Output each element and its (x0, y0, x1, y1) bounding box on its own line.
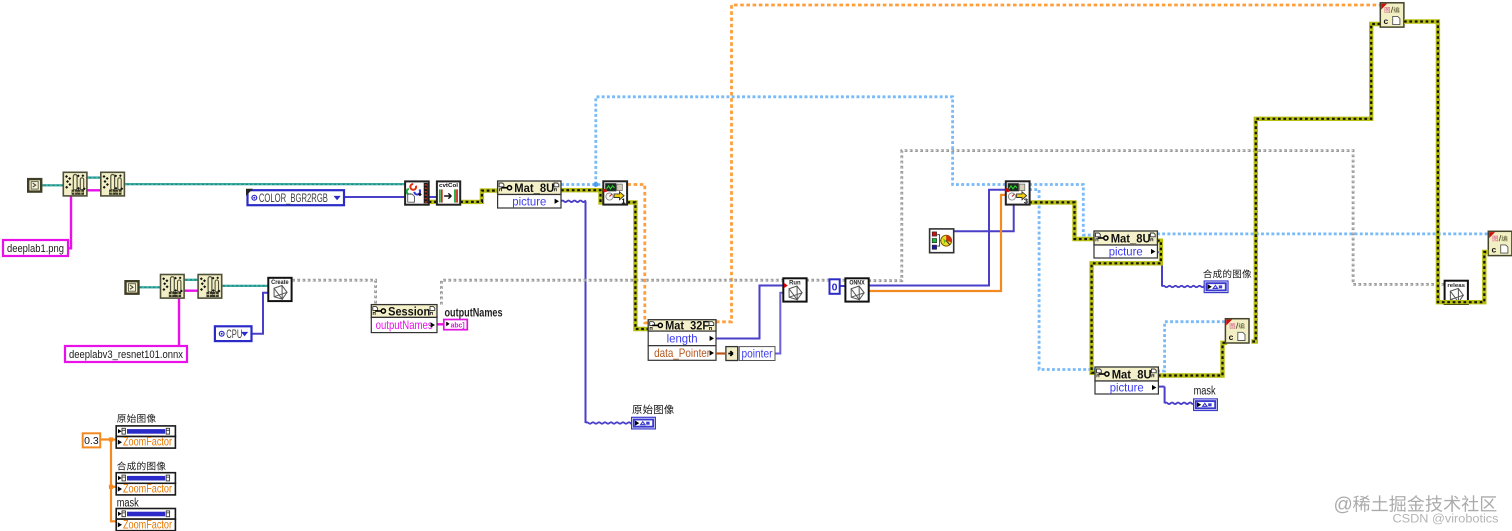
image encode node top right (1380, 3, 1404, 27)
enum CPU (215, 326, 252, 341)
ONNX invoke node (845, 278, 868, 301)
constant 0.3 (83, 433, 101, 447)
wire: CPU enum to Create (252, 293, 269, 334)
wire: mask mat to encode middle (1158, 343, 1227, 376)
wire: deeplab1.png string up to VI (68, 196, 72, 248)
svg-text:picture: picture (512, 194, 546, 208)
svg-text:outputNames: outputNames (376, 318, 433, 332)
wire: length to Run node (716, 286, 783, 339)
string constant deeplabv3_resnet101.onnx (65, 346, 187, 362)
wire: display 1 mat to Mat_32F (627, 202, 648, 329)
svg-text:ZoomFactor: ZoomFactor (123, 517, 172, 531)
wire: imread to cvtColor (429, 196, 437, 198)
pointer terminal (726, 347, 738, 361)
wire: Mat_8U ref to display 1 (561, 183, 603, 186)
wire: string between top VI icons (87, 189, 101, 191)
wire: data_Pointer to pointer (716, 352, 726, 354)
wire: ref branch across top to display 3 (596, 97, 1006, 185)
VI icon: build path (model) (198, 275, 222, 299)
svg-text:cvtCol: cvtCol (439, 183, 458, 189)
svg-text:3: 3 (1024, 197, 1028, 206)
svg-text:mask: mask (1194, 386, 1216, 398)
junction: ref wire branch (593, 182, 598, 187)
wire: cvtColor mat to Mat_8U (460, 191, 497, 202)
svg-text:CPU: CPU (226, 329, 242, 341)
wire: composite mat to Mat_8U mask (1092, 241, 1161, 373)
constant 0 (830, 279, 840, 294)
Mat_8U node C (mask) (1095, 367, 1158, 381)
Mat_8U node A (498, 181, 561, 195)
wire: picture to original image indicator (561, 201, 586, 202)
svg-text:c: c (1229, 332, 1234, 342)
enum COLOR_BGR2RGB (248, 190, 345, 205)
coercion dot display 1 (603, 189, 606, 192)
wire: path out to imread node (125, 183, 405, 185)
wire: onnx filename string up to VI (178, 292, 180, 347)
Mat_32F node (648, 320, 716, 331)
wire: Mat_8U to display 1 (561, 190, 603, 202)
wire: 0.3 to ZoomFactor 1 (100, 438, 116, 440)
Mat_8U node B (composite) (1094, 231, 1157, 245)
label composite image (1203, 269, 1212, 278)
wire: encode top right around to encode bottom right (1404, 22, 1488, 303)
image encode node middle (1225, 319, 1249, 343)
svg-text:ZoomFactor: ZoomFactor (123, 435, 172, 449)
Session node (371, 305, 437, 318)
imread node (405, 181, 429, 204)
wire: ONNX output to display 3 (868, 190, 1006, 286)
VI icon: build path (image) (101, 172, 125, 196)
wire: ONNX output 2 to display 3 (868, 195, 1006, 291)
ONNX Run node (783, 278, 806, 301)
svg-text:picture: picture (1109, 245, 1143, 259)
image display 3 (1006, 181, 1030, 204)
wire: pointer to Run node (775, 293, 783, 354)
wire: COLOR_BGR2RGB enum to imread (344, 196, 405, 198)
svg-text:COLOR_BGR2RGB: COLOR_BGR2RGB (259, 193, 328, 205)
wire: picture to mask indicator (1159, 386, 1165, 388)
wire: Run to ONNX node (806, 279, 845, 282)
image encode node bottom right (1488, 231, 1512, 255)
wire: picture to composite image indicator (1157, 251, 1162, 253)
wire: display 1 cluster to Mat_32F (627, 185, 648, 323)
svg-text:data_Pointer: data_Pointer (654, 346, 710, 360)
svg-text:ZoomFactor: ZoomFactor (123, 482, 172, 496)
svg-text:Mat_8U: Mat_8U (1112, 367, 1152, 381)
svg-text:Mat_8U: Mat_8U (514, 181, 554, 195)
svg-text:0: 0 (832, 282, 838, 294)
coercion dot Run input (784, 283, 788, 288)
wire: ref to Mat_8U mask (1029, 190, 1095, 370)
svg-text:Run: Run (789, 280, 801, 287)
svg-text:ONNX: ONNX (849, 280, 865, 287)
wire: session chain to release node (868, 151, 1444, 285)
VI icon: get exe path (63, 172, 87, 196)
indicator outputNames abc (444, 320, 468, 330)
ONNX release node (1445, 281, 1468, 304)
svg-text:releas: releas (1447, 283, 1465, 289)
string constant deeplab1.png (3, 240, 68, 256)
wire: Create session to Session node (292, 280, 376, 304)
coercion dot display 3 input (1005, 188, 1008, 191)
VI icon: get exe path 2 (161, 275, 185, 299)
svg-text:c: c (1492, 245, 1497, 255)
wire: ref to encode node middle (1157, 322, 1225, 371)
svg-text:c: c (1384, 16, 1389, 26)
svg-text:deeplabv3_resnet101.onnx: deeplabv3_resnet101.onnx (69, 349, 183, 361)
svg-text:1: 1 (621, 197, 625, 206)
junction: zoom factor branch 2 (109, 485, 113, 489)
ZoomFactor control 1 (116, 426, 175, 437)
wire: string between bottom VI icons (183, 290, 198, 292)
wire: path constant 2 to VI (138, 286, 161, 288)
wire: 0.3 branch to ZoomFactor 2 (111, 486, 116, 488)
label ZoomFactor original (117, 414, 126, 422)
svg-text:length: length (667, 332, 698, 346)
cvtColor node (437, 181, 460, 204)
svg-text:abc]: abc] (451, 322, 465, 329)
svg-text:0.3: 0.3 (84, 435, 99, 447)
svg-text:deeplab1.png: deeplab1.png (7, 243, 64, 255)
wire: mat imread to cvtColor (429, 200, 437, 204)
ZoomFactor control 3 (116, 509, 175, 520)
wire: ref to encode node bottom right (1157, 232, 1489, 235)
svg-text:@: @ (1334, 495, 1353, 516)
svg-text:mask: mask (117, 497, 139, 509)
path constant (image) (28, 179, 41, 192)
label original image (632, 405, 641, 414)
wire: colorbox to display 3 (954, 205, 1014, 232)
wire: outputNames to abc indicator (437, 323, 445, 325)
svg-text:CSDN @virobotics: CSDN @virobotics (1393, 514, 1499, 526)
wire: teal between bottom VI icons (183, 279, 198, 281)
label ZoomFactor composite (117, 461, 126, 470)
ONNX Create node (268, 278, 291, 301)
path constant (model) (126, 281, 139, 294)
wire: 0.3 branch down to ZoomFactor 3 (111, 440, 116, 522)
svg-text:Session: Session (388, 304, 430, 318)
svg-text:Mat_8U: Mat_8U (1111, 231, 1151, 245)
color table node (930, 229, 954, 253)
indicator original image (632, 417, 656, 429)
ZoomFactor control 2 (116, 473, 175, 484)
junction: zoom factor branch 1 (109, 437, 113, 441)
wire: Mat_32F cluster across top to encode node (716, 5, 1380, 322)
wire: model path to Create node (221, 285, 268, 287)
wire: encode top mat down to encode middle (1251, 24, 1380, 342)
wire: display 3 mat to Mat_8U composite (1029, 202, 1094, 239)
image display 1 (603, 181, 627, 204)
svg-text:outputNames: outputNames (445, 308, 503, 320)
wire: path constant 1 to Read Image VI (42, 184, 64, 186)
wire: teal between top VI icons (87, 177, 101, 179)
indicator mask (1194, 399, 1218, 411)
wire: constant 0 to ONNX node (839, 285, 845, 287)
svg-text:pointer: pointer (742, 346, 773, 360)
wire: Session to Run node (441, 280, 783, 304)
wire: ref to Mat_8U composite (1029, 185, 1094, 236)
svg-text:picture: picture (1110, 381, 1144, 395)
indicator composite image (1204, 281, 1228, 293)
svg-text:Create: Create (271, 279, 289, 286)
